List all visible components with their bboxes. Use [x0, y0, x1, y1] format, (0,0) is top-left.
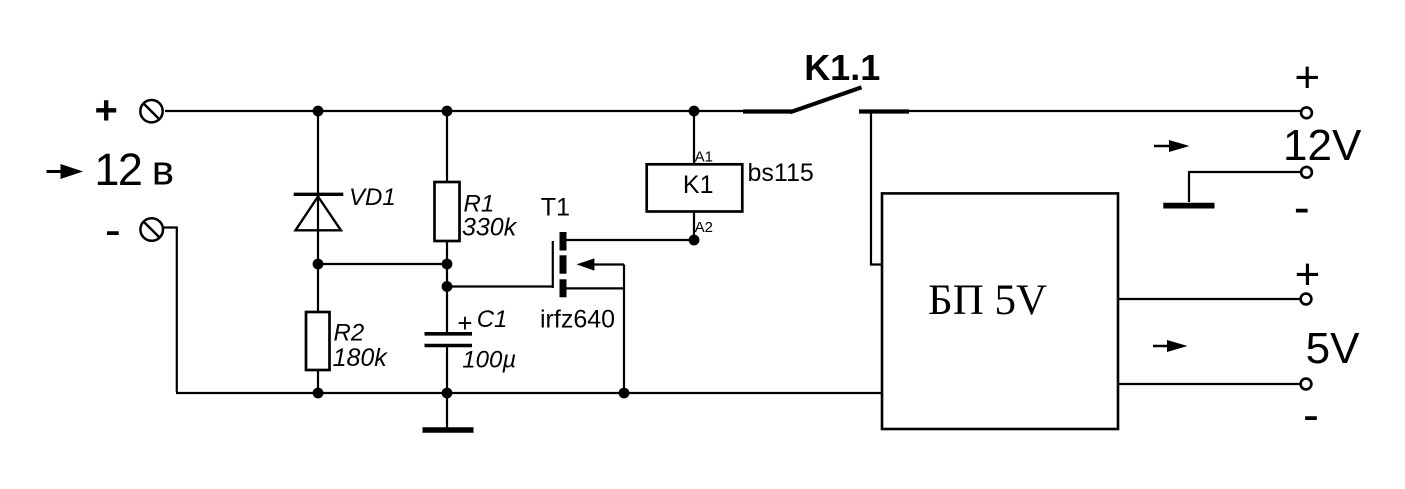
transistor T1 mosfet	[553, 232, 595, 297]
svg-text:+: +	[1294, 53, 1320, 102]
terminal 12V plus	[1301, 107, 1312, 118]
arrow 12V	[1154, 140, 1190, 152]
wire node divider horizontal	[318, 263, 447, 265]
wire minus input down	[164, 228, 177, 393]
svg-text:-: -	[1294, 181, 1310, 234]
wire top bus left	[165, 110, 745, 112]
svg-text:5V: 5V	[1306, 324, 1360, 373]
wire C1 bottom	[446, 346, 448, 393]
resistor R1	[435, 182, 460, 241]
svg-text:A1: A1	[695, 148, 713, 165]
wire relay A1	[693, 111, 695, 164]
junction divider VD1	[313, 259, 324, 270]
svg-text:K1: K1	[683, 171, 714, 199]
terminal input minus	[140, 218, 163, 241]
ground 12V	[1163, 203, 1214, 209]
wire source	[566, 287, 624, 289]
relay K1 coil	[647, 164, 743, 211]
power supply box BP5V	[882, 193, 1118, 429]
ground main	[423, 427, 474, 433]
svg-text:180k: 180k	[333, 344, 389, 372]
svg-text:R2: R2	[334, 320, 365, 347]
capacitor C1	[425, 334, 473, 346]
wire 5V minus	[1118, 383, 1301, 385]
svg-text:БП 5V: БП 5V	[928, 277, 1047, 324]
resistor R2	[306, 312, 330, 370]
svg-text:irfz640: irfz640	[540, 306, 615, 334]
terminal 12V minus	[1301, 167, 1312, 178]
junction divider R1	[442, 259, 453, 270]
terminal 5V minus	[1301, 379, 1312, 390]
junction top relay	[689, 106, 700, 117]
junction relay A2 drain	[689, 235, 700, 246]
wire 12V minus	[1189, 172, 1302, 202]
junction bottom source	[619, 388, 630, 399]
wire substrate arrow line	[592, 263, 624, 265]
wire top bus right	[906, 110, 1302, 112]
junction top R1	[442, 106, 453, 117]
wire bottom bus	[176, 392, 883, 394]
svg-text:C1: C1	[477, 306, 508, 333]
junction bottom C1	[442, 388, 453, 399]
wire R2 top	[317, 264, 319, 312]
svg-text:K1.1: K1.1	[804, 47, 880, 88]
junction bottom R2	[313, 388, 324, 399]
svg-text:+: +	[1295, 250, 1321, 299]
arrow input	[47, 164, 84, 179]
wire ground C1	[446, 393, 448, 428]
svg-text:-: -	[1303, 389, 1319, 442]
wire VD1	[317, 111, 319, 264]
svg-text:bs115: bs115	[748, 159, 814, 187]
svg-text:+: +	[95, 89, 118, 133]
wire 5V plus	[1118, 298, 1301, 300]
svg-text:-: -	[105, 204, 121, 257]
svg-text:330k: 330k	[462, 213, 518, 241]
wire switch down to psu	[871, 113, 883, 265]
switch K1.1	[743, 87, 909, 112]
wire R1 top	[446, 111, 448, 182]
wire drain to relay A2	[566, 239, 694, 241]
svg-text:в: в	[152, 147, 174, 194]
wire relay A2	[693, 212, 695, 241]
svg-text:12: 12	[94, 144, 141, 195]
svg-text:100µ: 100µ	[462, 347, 516, 374]
svg-text:T1: T1	[541, 194, 570, 222]
junction gate	[442, 281, 453, 292]
wire source down	[623, 265, 625, 394]
svg-text:12V: 12V	[1283, 121, 1362, 170]
wire R1 to C1	[446, 241, 448, 334]
diode VD1	[294, 194, 344, 230]
svg-text:A2: A2	[695, 219, 713, 236]
arrow 5V	[1153, 340, 1188, 352]
terminal 5V plus	[1301, 294, 1312, 305]
junction top VD1	[313, 106, 324, 117]
svg-text:+: +	[457, 308, 472, 338]
wire gate	[447, 285, 553, 287]
terminal input plus	[140, 100, 162, 122]
svg-text:VD1: VD1	[349, 184, 396, 211]
wire R2 bottom	[317, 370, 319, 393]
